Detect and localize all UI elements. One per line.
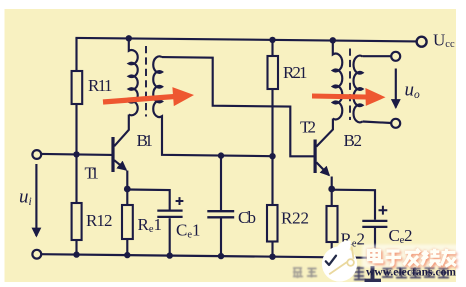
svg-text:R21: R21 <box>283 63 308 82</box>
svg-text:B2: B2 <box>344 131 363 150</box>
svg-text:R22: R22 <box>281 209 309 228</box>
svg-text:R11: R11 <box>88 76 113 95</box>
svg-text:Cb: Cb <box>238 208 256 227</box>
svg-text:T1: T1 <box>85 163 100 182</box>
svg-text:B1: B1 <box>137 131 154 150</box>
svg-text:T2: T2 <box>300 118 316 137</box>
svg-text:R12: R12 <box>86 211 113 230</box>
